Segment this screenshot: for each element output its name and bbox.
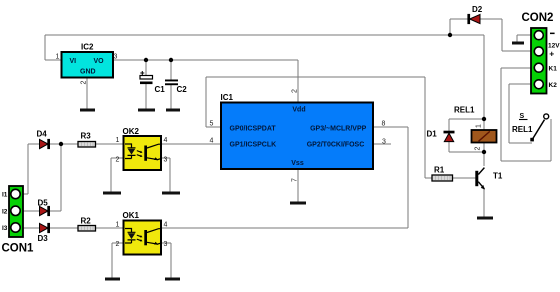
svg-text:I2: I2 [2,208,8,215]
svg-text:3: 3 [164,241,168,248]
svg-text:1: 1 [116,222,120,229]
svg-text:OK2: OK2 [123,127,140,136]
svg-text:1: 1 [116,137,120,144]
svg-text:1: 1 [476,124,483,128]
svg-text:IC2: IC2 [81,43,94,52]
svg-text:C1: C1 [155,85,166,94]
svg-text:R2: R2 [81,217,92,226]
svg-text:REL1: REL1 [512,125,533,134]
svg-text:I3: I3 [2,225,8,232]
svg-text:I1: I1 [2,192,8,199]
svg-text:VI: VI [70,58,77,65]
svg-text:R3: R3 [81,132,92,141]
svg-text:R1: R1 [434,165,445,174]
svg-text:3: 3 [382,139,386,146]
svg-text:Vss: Vss [291,160,304,167]
svg-text:GP0/ICSPDAT: GP0/ICSPDAT [230,126,277,133]
svg-text:8: 8 [382,121,386,128]
svg-text:VO: VO [94,58,105,65]
svg-text:GP3/~MCLR/VPP: GP3/~MCLR/VPP [310,126,367,133]
svg-text:Vdd: Vdd [292,107,305,114]
svg-text:GP2/T0CKI/FOSC: GP2/T0CKI/FOSC [307,142,365,149]
svg-text:D2: D2 [472,5,483,14]
svg-text:2: 2 [81,81,88,85]
svg-text:GND: GND [80,69,96,76]
svg-text:D5: D5 [38,199,49,208]
svg-text:3: 3 [164,157,168,164]
svg-text:4: 4 [164,137,168,144]
svg-text:3: 3 [114,54,118,61]
svg-text:2: 2 [475,147,482,151]
svg-text:12V: 12V [548,42,560,49]
svg-text:T1: T1 [493,172,503,181]
svg-text:K1: K1 [549,66,558,73]
svg-text:GP1/ICSPCLK: GP1/ICSPCLK [230,142,277,149]
svg-text:CON2: CON2 [522,12,554,24]
svg-text:CON1: CON1 [2,243,35,255]
svg-text:1: 1 [56,54,60,61]
svg-text:2: 2 [116,241,120,248]
svg-text:+: + [549,48,554,58]
svg-text:2: 2 [292,89,299,93]
svg-text:D4: D4 [37,129,48,138]
svg-text:REL1: REL1 [454,105,475,114]
svg-text:2: 2 [116,157,120,164]
svg-text:K2: K2 [549,82,558,89]
svg-text:IC1: IC1 [221,93,234,102]
svg-text:4: 4 [164,222,168,229]
svg-text:5: 5 [210,121,214,128]
svg-text:C2: C2 [177,85,188,94]
svg-text:7: 7 [292,178,299,182]
svg-text:D3: D3 [38,234,49,243]
svg-text:OK1: OK1 [123,211,140,220]
svg-text:D1: D1 [427,130,438,139]
svg-text:4: 4 [210,138,214,145]
